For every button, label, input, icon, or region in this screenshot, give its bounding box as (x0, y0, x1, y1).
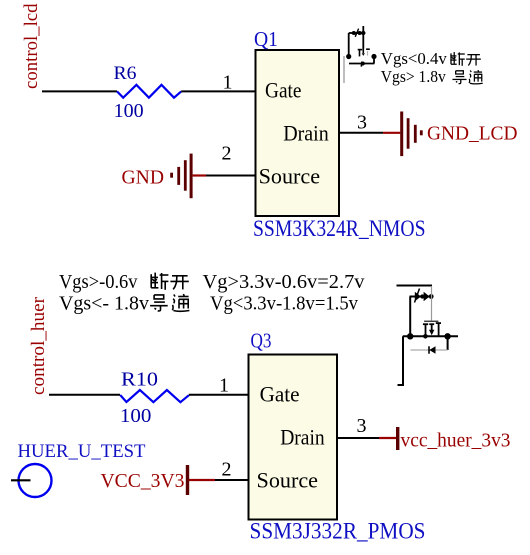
svg-text:SSM3J332R_PMOS: SSM3J332R_PMOS (250, 519, 426, 544)
svg-text:SSM3K324R_NMOS: SSM3K324R_NMOS (253, 216, 426, 241)
svg-text:Vgs<0.4v: Vgs<0.4v (381, 49, 447, 68)
note 导通 (bottom) (150, 295, 168, 311)
wire (403, 335, 458, 337)
wire drain pin (Q3) (337, 437, 379, 439)
body diode row (411, 349, 448, 351)
wire gate-left segment (Q3) (49, 394, 120, 396)
svg-text:Drain: Drain (283, 121, 329, 146)
arrow down (429, 330, 434, 335)
wire drain pin (Q1) (339, 132, 383, 134)
svg-text:Vgs<- 1.8v: Vgs<- 1.8v (59, 293, 149, 315)
note 断开 (bottom) (150, 273, 168, 290)
op body Q3 (249, 355, 338, 520)
annotation sketch NMOS (hand-drawn transistor) (346, 26, 377, 67)
svg-text:3: 3 (357, 415, 367, 437)
wire gate-left segment (42, 90, 117, 92)
annotation sketch PMOS (hand-drawn transistor) (397, 286, 459, 386)
junction dots (346, 31, 377, 66)
wire resistor to gate pin (181, 90, 255, 92)
diode arrows on top wire (415, 292, 434, 301)
resistor R10 (120, 390, 189, 402)
svg-text:Gate: Gate (260, 382, 300, 407)
svg-text:vcc_huer_3v3: vcc_huer_3v3 (401, 430, 511, 452)
svg-text:Source: Source (259, 164, 321, 189)
svg-text:R10: R10 (121, 369, 158, 391)
svg-text:1: 1 (223, 72, 233, 94)
svg-text:Q1: Q1 (254, 27, 278, 51)
svg-text:Vg<3.3v-1.8v=1.5v: Vg<3.3v-1.8v=1.5v (210, 293, 358, 315)
wire resistor to gate pin (Q3) (189, 394, 248, 396)
wire into test point (11, 479, 31, 481)
wire (373, 57, 375, 64)
svg-text:control_huer: control_huer (28, 296, 49, 395)
svg-text:GND_LCD: GND_LCD (427, 123, 518, 145)
wire VCC to source pin (Q3) (215, 479, 248, 481)
wire stub vcc_huer_3v3 (red) (379, 437, 397, 439)
svg-text:2: 2 (222, 459, 232, 481)
svg-text:Source: Source (257, 468, 319, 493)
wire (348, 33, 350, 57)
svg-text:VCC_3V3: VCC_3V3 (101, 470, 185, 492)
note 断开 (top) (450, 52, 464, 66)
svg-text:2: 2 (222, 143, 232, 165)
stray grey line (bottom sketch) (431, 286, 433, 321)
op body Q1 (256, 50, 340, 216)
resistor R6 (117, 85, 181, 98)
svg-text:1: 1 (219, 375, 229, 397)
power bar VCC_3V3 (186, 465, 189, 495)
wire stub GND_LCD (red) (383, 132, 400, 134)
svg-text:Gate: Gate (265, 78, 302, 103)
wire stub VCC_3V3 (red) (189, 479, 215, 481)
power bar vcc_huer_3v3 (396, 427, 399, 450)
svg-text:Vg>3.3v-0.6v=2.7v: Vg>3.3v-0.6v=2.7v (203, 271, 365, 293)
svg-text:Q3: Q3 (251, 329, 272, 353)
junction dots (407, 333, 451, 339)
wire (397, 285, 433, 287)
svg-text:control_lcd: control_lcd (21, 3, 42, 89)
mosfet gate bar (424, 320, 438, 322)
svg-text:3: 3 (357, 112, 367, 134)
stray grey line (top) (343, 56, 345, 83)
svg-text:HUER_U_TEST: HUER_U_TEST (18, 441, 146, 462)
svg-text:R6: R6 (114, 63, 137, 84)
slash mark (415, 289, 420, 303)
wire (410, 296, 433, 298)
svg-text:100: 100 (114, 100, 144, 122)
wire (398, 336, 404, 385)
wire (349, 32, 364, 34)
mini mosfet gate (358, 48, 370, 57)
svg-text:100: 100 (120, 405, 152, 427)
wire (362, 26, 364, 49)
note 导通 (top) (452, 71, 466, 84)
svg-text:Vgs>-0.6v: Vgs>-0.6v (59, 271, 138, 293)
wire GND to source pin (206, 175, 255, 177)
slash marks (355, 29, 358, 37)
svg-text:GND: GND (122, 167, 165, 189)
wire stub GND (red) (193, 174, 206, 176)
power ground symbol GND_LCD (400, 112, 422, 157)
wire (447, 336, 449, 350)
wire (349, 63, 374, 65)
svg-text:Drain: Drain (280, 425, 325, 450)
power ground symbol GND (170, 154, 192, 199)
gate contacts and legs (423, 323, 428, 325)
wire (409, 297, 411, 337)
svg-text:Vgs> 1.8v: Vgs> 1.8v (381, 67, 446, 86)
test point circle (19, 464, 52, 497)
